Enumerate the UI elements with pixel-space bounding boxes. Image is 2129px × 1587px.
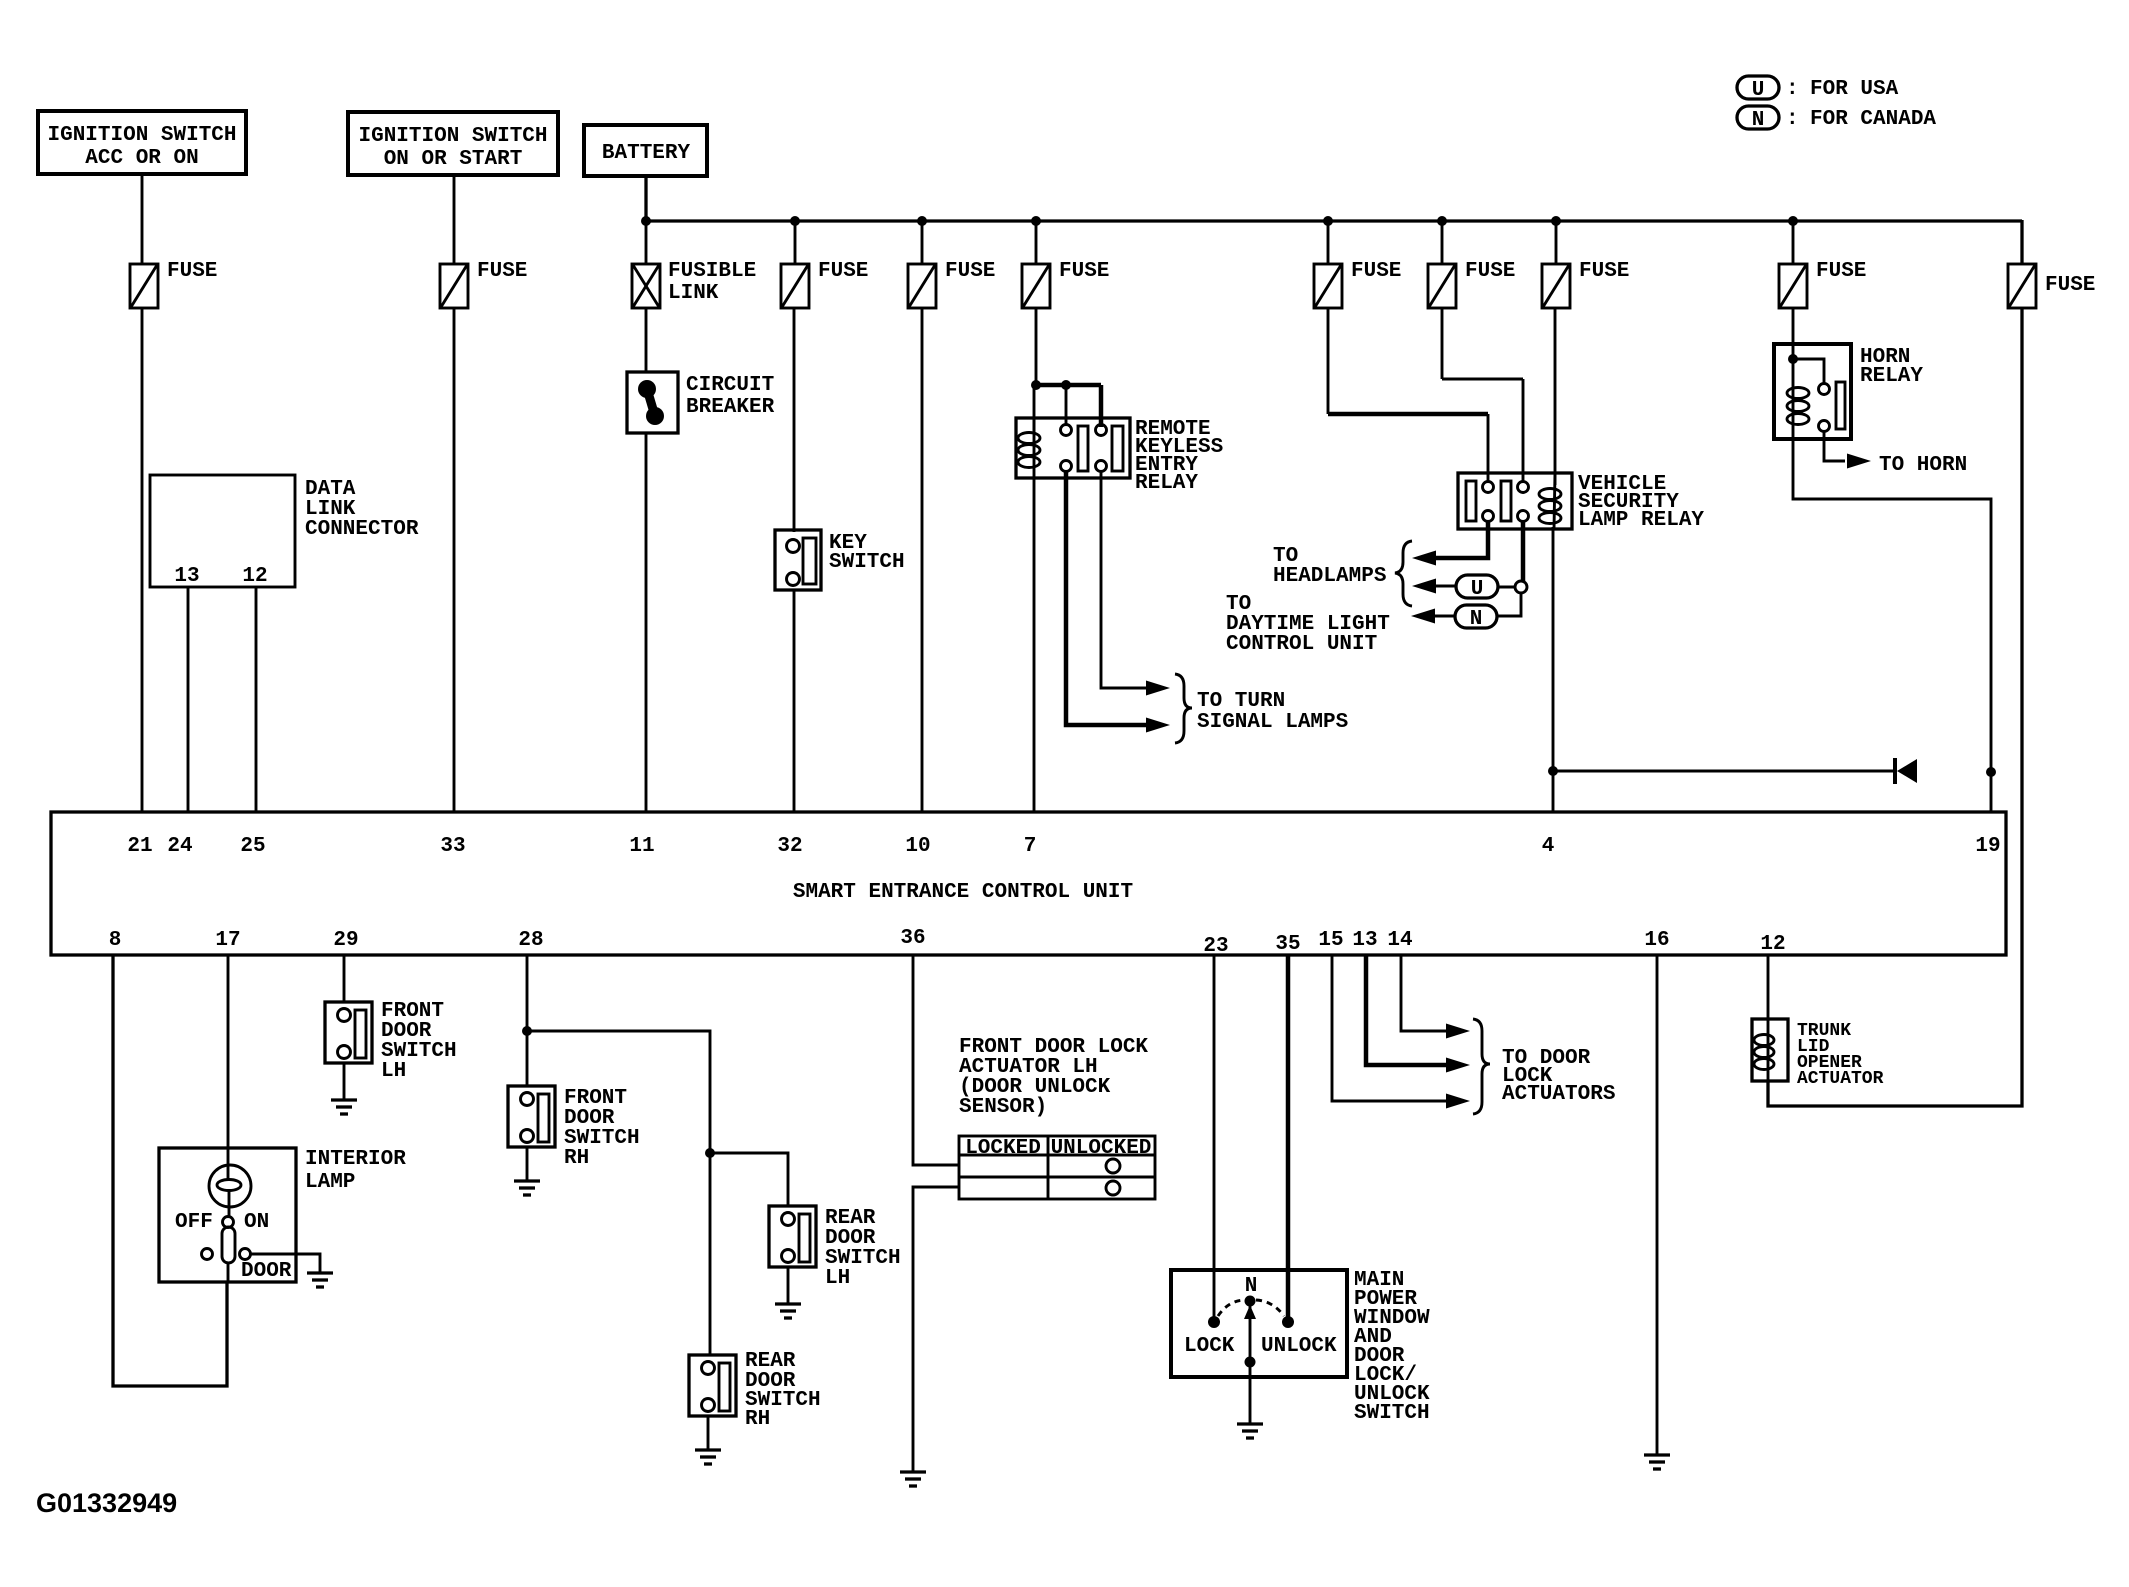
svg-text:13: 13: [1352, 929, 1377, 952]
arrow to horn: [1847, 454, 1871, 469]
trunk lid opener actuator: [1752, 1019, 1884, 1089]
wire battery to bus: [644, 176, 647, 221]
fuse (horn relay): [1779, 260, 1866, 308]
wire keyless contact to lower turn signal arrow: [1066, 471, 1150, 725]
svg-text:UNLOCK: UNLOCK: [1261, 1335, 1337, 1358]
wire pin 35 to unlock contact: [1286, 955, 1291, 1317]
wire switch common to ground: [1249, 1362, 1252, 1424]
wire arrow to N stadium: [1431, 615, 1455, 618]
relay (vehicle security lamp): [1458, 473, 1704, 532]
svg-text:ON: ON: [244, 1211, 269, 1234]
svg-text:14: 14: [1387, 929, 1412, 952]
svg-text:15: 15: [1318, 929, 1343, 952]
svg-text:FUSE: FUSE: [1816, 260, 1866, 283]
svg-text:LAMP RELAY: LAMP RELAY: [1578, 509, 1704, 532]
svg-text:RH: RH: [745, 1408, 770, 1431]
wire pin 15 to door lock actuators arrow 3: [1332, 955, 1449, 1101]
wire battery feed bus: [646, 219, 2022, 222]
svg-text:28: 28: [518, 929, 543, 952]
wire junction to rear door switches: [527, 1031, 710, 1355]
node bus junction 3: [917, 216, 927, 226]
wire interior lamp door contact to ground: [250, 1254, 320, 1273]
fuse (keyless relay feed): [1022, 260, 1109, 308]
wire junction to rear door switch LH: [710, 1153, 788, 1206]
wire security relay coil to pin 4: [1552, 527, 1555, 812]
svg-text:OFF: OFF: [175, 1211, 213, 1234]
fuse (security relay contact 1): [1314, 260, 1401, 308]
svg-text:33: 33: [440, 835, 465, 858]
svg-text:FUSE: FUSE: [1465, 260, 1515, 283]
node keyless feed junction 2: [1061, 380, 1071, 390]
diode: [1895, 758, 1917, 784]
svg-text:FUSE: FUSE: [477, 260, 527, 283]
key switch: [775, 530, 905, 590]
svg-text:IGNITION SWITCH: IGNITION SWITCH: [358, 125, 547, 148]
label to door lock actuators: [1502, 1047, 1615, 1106]
svg-text:HEADLAMPS: HEADLAMPS: [1273, 565, 1386, 588]
svg-text:35: 35: [1275, 933, 1300, 956]
node door switch junction 2: [705, 1148, 715, 1158]
wire fuse to keyless relay junction: [1035, 308, 1038, 387]
node door switch junction 1: [522, 1026, 532, 1036]
wire front door switch RH to ground: [526, 1147, 529, 1181]
wire diode link: [1553, 770, 1895, 773]
node diode junction right: [1986, 767, 1996, 777]
fuse (ignition ON/START): [440, 260, 527, 308]
wire bus to fuse 6: [1327, 221, 1330, 264]
svg-text:FUSE: FUSE: [945, 260, 995, 283]
wire fuse to pin 33: [453, 308, 456, 812]
svg-text:LH: LH: [381, 1060, 406, 1083]
ground (interior lamp): [307, 1273, 333, 1287]
arrow to turn signal lamps lower: [1146, 718, 1170, 733]
node bus junction 2: [790, 216, 800, 226]
wire bus to fuse 4: [921, 221, 924, 264]
svg-text:SENSOR): SENSOR): [959, 1096, 1047, 1119]
fuse (ignition ACC): [130, 260, 217, 308]
rear door switch LH: [769, 1206, 901, 1290]
svg-text:12: 12: [1760, 933, 1785, 956]
svg-text:LOCK: LOCK: [1184, 1335, 1235, 1358]
wire pin 28 to front door switch RH: [526, 955, 529, 1086]
node bus junction 7: [1551, 216, 1561, 226]
arrow to turn signal lamps upper: [1146, 681, 1170, 696]
svg-text:ON OR START: ON OR START: [384, 148, 523, 171]
wire bus drop to right fuse: [2020, 220, 2023, 264]
svg-text:SWITCH: SWITCH: [829, 551, 905, 574]
fuse (security relay contact 2): [1428, 260, 1515, 308]
label to headlamps: [1273, 545, 1386, 588]
brace to turn signal lamps: [1175, 674, 1192, 743]
wire ignition2 to fuse: [453, 175, 456, 264]
svg-text:SIGNAL LAMPS: SIGNAL LAMPS: [1197, 711, 1348, 734]
wire bus to fuse 7: [1441, 221, 1444, 264]
svg-text:21: 21: [127, 835, 152, 858]
svg-text:INTERIOR: INTERIOR: [305, 1148, 406, 1171]
svg-text:FOR CANADA: FOR CANADA: [1810, 108, 1936, 131]
svg-text:10: 10: [905, 835, 930, 858]
main power window and door lock/unlock switch: [1171, 1269, 1430, 1425]
wire U stadium to junction: [1498, 586, 1515, 589]
ignition switch ACC or ON supply box: [38, 111, 246, 174]
legend U for USA: [1737, 76, 1899, 102]
wire arrow to U stadium: [1432, 585, 1456, 588]
wire fuse 9 to horn relay: [1792, 308, 1795, 346]
wire DLC 13 to pin 24: [187, 587, 190, 812]
wire ignition1 to fuse: [141, 174, 144, 264]
data link connector: [150, 475, 419, 588]
arrow to door lock actuators 1: [1446, 1024, 1470, 1039]
wire bus to fuse 3: [794, 221, 797, 264]
arrow to door lock actuators 3: [1446, 1094, 1470, 1109]
wire horn contact to arrow: [1824, 431, 1845, 461]
wire fuse 7 to security relay right contact: [1442, 308, 1523, 482]
wire horn coil to pin 19: [1793, 439, 1991, 812]
wire rear door switch RH to ground: [707, 1416, 710, 1450]
stadium N: [1455, 605, 1497, 631]
ground (rear door switch LH): [775, 1304, 801, 1318]
svg-text:19: 19: [1975, 835, 2000, 858]
svg-text:UNLOCKED: UNLOCKED: [1051, 1137, 1152, 1160]
interior lamp: [159, 1148, 406, 1283]
rear door switch RH: [689, 1350, 821, 1431]
arrow to door lock actuators 2: [1446, 1058, 1470, 1073]
svg-text:FUSE: FUSE: [818, 260, 868, 283]
wire pin 23 to lock contact: [1213, 955, 1216, 1317]
svg-text:LINK: LINK: [668, 282, 719, 305]
svg-text:SMART ENTRANCE CONTROL UNIT: SMART ENTRANCE CONTROL UNIT: [793, 881, 1133, 904]
svg-text:FUSE: FUSE: [167, 260, 217, 283]
wire pin 36 to door unlock sensor: [913, 955, 959, 1165]
svg-text:CIRCUIT: CIRCUIT: [686, 374, 774, 397]
fuse (pin 10 feed): [908, 260, 995, 308]
circuit breaker: [627, 372, 775, 433]
wire front door switch LH to ground: [343, 1063, 346, 1100]
smart entrance control unit box: [51, 812, 2006, 955]
svg-text::: :: [1786, 108, 1799, 131]
wire pin 17 to interior lamp: [227, 955, 230, 1165]
svg-text:SWITCH: SWITCH: [1354, 1402, 1430, 1425]
svg-text:29: 29: [333, 929, 358, 952]
node horn relay junction: [1788, 354, 1798, 364]
node bus junction 4: [1031, 216, 1041, 226]
svg-text:LAMP: LAMP: [305, 1171, 355, 1194]
node bus junction 5: [1323, 216, 1333, 226]
svg-text:7: 7: [1024, 835, 1037, 858]
battery box: [584, 125, 707, 176]
svg-text:LH: LH: [825, 1267, 850, 1290]
wire door unlock sensor to ground: [913, 1187, 959, 1472]
node bus junction 1: [641, 216, 651, 226]
relay (horn): [1774, 344, 1923, 439]
wire pin 14 to door lock actuators arrow 1: [1401, 955, 1449, 1031]
wire DLC 12 to pin 25: [255, 587, 258, 812]
wire keyless relay top feed: [1034, 385, 1101, 432]
svg-text:G01332949: G01332949: [36, 1488, 177, 1518]
svg-text:ACTUATORS: ACTUATORS: [1502, 1083, 1615, 1106]
wire fuse to pin 21: [141, 308, 144, 812]
arrow to headlamps: [1412, 551, 1436, 566]
arrow to N: [1411, 609, 1435, 624]
ground (main power window switch): [1237, 1424, 1263, 1438]
svg-text:4: 4: [1542, 835, 1555, 858]
wire circuit breaker to pin 11: [645, 433, 648, 812]
svg-text:N: N: [1752, 109, 1765, 132]
wire bus to fuse 8: [1555, 221, 1558, 264]
wire rear door switch LH to ground: [787, 1267, 790, 1304]
label to turn signal lamps: [1197, 690, 1348, 734]
ground (front door switch RH): [514, 1181, 540, 1195]
svg-text:BREAKER: BREAKER: [686, 396, 775, 419]
svg-text:FOR USA: FOR USA: [1810, 78, 1899, 101]
wire U junction to N stadium: [1497, 593, 1521, 616]
svg-text:TO TURN: TO TURN: [1197, 690, 1285, 713]
svg-text:IGNITION SWITCH: IGNITION SWITCH: [47, 124, 236, 147]
svg-text:8: 8: [109, 929, 122, 952]
svg-text:11: 11: [629, 835, 654, 858]
wire fuse to pin 10: [921, 308, 924, 812]
fuse (key switch): [781, 260, 868, 308]
wire bus to fuse 9: [1792, 221, 1795, 264]
stadium U: [1456, 575, 1498, 601]
svg-text:FUSE: FUSE: [1579, 260, 1629, 283]
svg-text:LOCKED: LOCKED: [965, 1137, 1041, 1160]
svg-text:32: 32: [777, 835, 802, 858]
svg-text:12: 12: [242, 565, 267, 588]
ignition switch ON or START supply box: [348, 112, 558, 175]
svg-text:FUSE: FUSE: [1351, 260, 1401, 283]
wire pin 29 to front door switch LH: [343, 955, 346, 1002]
svg-text:CONNECTOR: CONNECTOR: [305, 518, 419, 541]
front door switch RH: [508, 1086, 640, 1170]
svg-text:DOOR: DOOR: [241, 1260, 292, 1283]
wire fuse 6 to security relay left contact: [1328, 308, 1488, 482]
ground (door unlock sensor): [900, 1472, 926, 1486]
fuse (security relay coil): [1542, 260, 1629, 308]
legend N for Canada: [1737, 106, 1936, 132]
svg-text:16: 16: [1644, 929, 1669, 952]
svg-text::: :: [1786, 78, 1799, 101]
ground (front door switch LH): [331, 1100, 357, 1114]
ground (rear door switch RH): [695, 1450, 721, 1464]
wire pin 16 to ground: [1656, 955, 1659, 1455]
wire pin 12 to trunk lid opener actuator: [1767, 955, 1770, 1019]
fuse (trunk feed right): [2008, 264, 2095, 308]
label front door lock actuator LH: [959, 1036, 1148, 1119]
wire fusible link to circuit breaker: [645, 308, 648, 372]
ground (pin 16): [1644, 1455, 1670, 1469]
svg-text:FUSE: FUSE: [1059, 260, 1109, 283]
svg-text:ACC OR ON: ACC OR ON: [85, 147, 198, 170]
relay (remote keyless entry): [1016, 418, 1223, 495]
wire pin 13 to door lock actuators arrow 2: [1366, 955, 1449, 1065]
brace to door lock actuators: [1473, 1019, 1490, 1114]
wire security relay contact to U junction: [1521, 521, 1526, 581]
svg-text:CONTROL UNIT: CONTROL UNIT: [1226, 633, 1377, 656]
svg-text:RH: RH: [564, 1147, 589, 1170]
svg-text:24: 24: [167, 835, 192, 858]
svg-text:13: 13: [174, 565, 199, 588]
node bus junction 8: [1788, 216, 1798, 226]
fusible link: [632, 260, 756, 308]
svg-text:36: 36: [900, 927, 925, 950]
svg-text:ACTUATOR: ACTUATOR: [1797, 1069, 1884, 1089]
svg-text:U: U: [1752, 79, 1765, 102]
svg-text:RELAY: RELAY: [1135, 472, 1198, 495]
wire keyless coil to pin 7: [1033, 472, 1036, 812]
node keyless feed junction 1: [1031, 380, 1041, 390]
wire fuse 8 to security relay coil: [1554, 308, 1557, 485]
door unlock sensor table: [959, 1136, 1155, 1199]
front door switch LH: [325, 1000, 457, 1083]
label to daytime light control unit: [1226, 593, 1390, 656]
svg-text:BATTERY: BATTERY: [602, 142, 691, 165]
node U junction circle: [1515, 581, 1527, 593]
svg-text:23: 23: [1203, 935, 1228, 958]
svg-text:FUSIBLE: FUSIBLE: [668, 260, 756, 283]
svg-text:TO HORN: TO HORN: [1879, 454, 1967, 477]
wire pin 8 to interior lamp return: [113, 955, 227, 1386]
svg-text:RELAY: RELAY: [1860, 365, 1923, 388]
wire security relay contact to headlamps arrow: [1431, 521, 1488, 558]
brace to headlamps: [1395, 541, 1412, 606]
wire bus to fuse 5: [1035, 221, 1038, 264]
svg-text:25: 25: [240, 835, 265, 858]
node diode junction left: [1548, 766, 1558, 776]
wire bus to fusible link: [645, 221, 648, 264]
wire keyless contact to upper turn signal arrow: [1101, 471, 1150, 688]
svg-text:N: N: [1245, 1275, 1258, 1298]
wire right fuse down right edge to trunk actuator: [1768, 308, 2022, 1106]
svg-text:U: U: [1471, 578, 1484, 601]
wire fuse to key switch: [793, 308, 796, 532]
svg-text:N: N: [1470, 608, 1483, 631]
svg-text:17: 17: [215, 929, 240, 952]
node bus junction 6: [1437, 216, 1447, 226]
svg-text:FUSE: FUSE: [2045, 274, 2095, 297]
arrow to U: [1412, 579, 1436, 594]
wire key switch to pin 32: [793, 590, 796, 812]
